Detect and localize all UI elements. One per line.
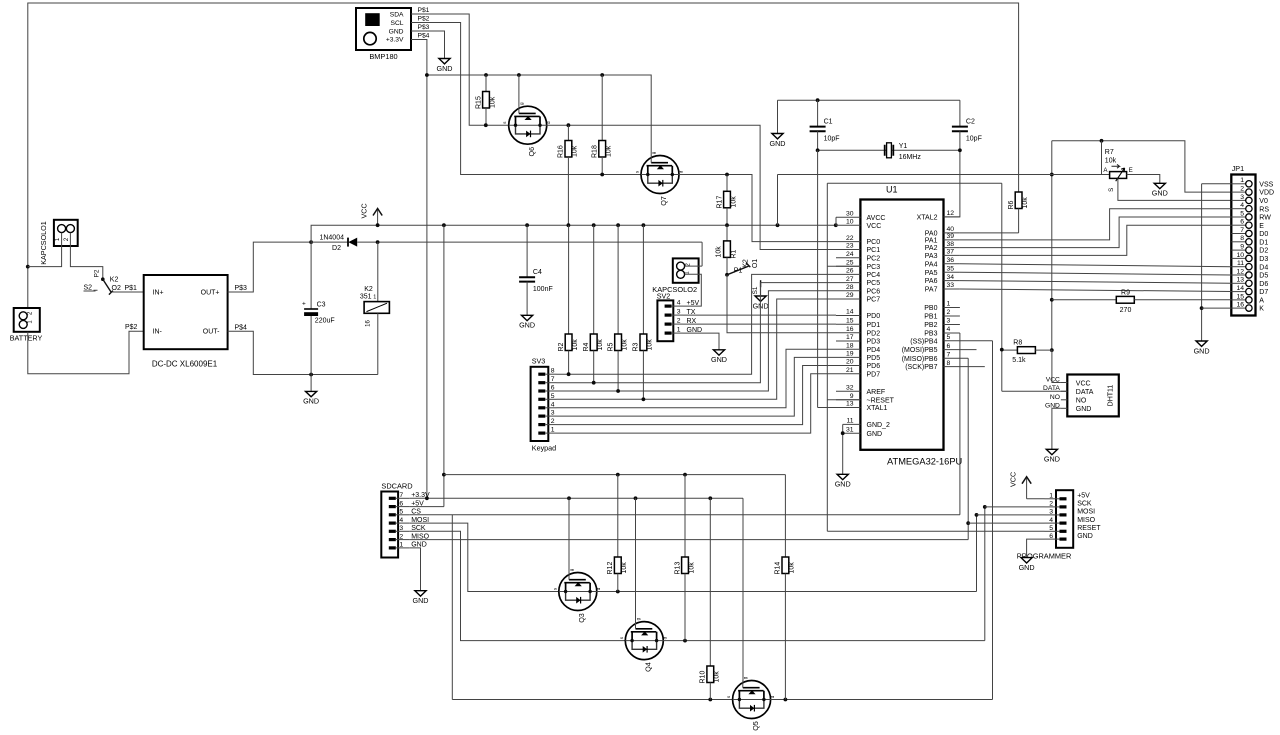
svg-text:10k: 10k (606, 145, 613, 157)
svg-text:12: 12 (947, 210, 955, 217)
svg-text:BATTERY: BATTERY (10, 334, 43, 343)
wire P1 to PD2 (727, 275, 836, 333)
wire OUT+ (P$3) up to D2 anode (228, 242, 312, 292)
svg-text:37: 37 (947, 249, 955, 256)
svg-text:13: 13 (1236, 277, 1244, 284)
svg-text:14: 14 (846, 309, 854, 316)
junction MISO pin4 (966, 521, 970, 525)
svg-text:4: 4 (1240, 202, 1244, 209)
svg-text:R6: R6 (1008, 200, 1015, 209)
svg-text:16MHz: 16MHz (899, 154, 922, 161)
svg-text:D0: D0 (1259, 231, 1268, 238)
svg-text:PC6: PC6 (867, 288, 881, 295)
svg-text:SCK: SCK (1077, 501, 1092, 508)
svg-text:9: 9 (1240, 244, 1244, 251)
svg-text:5: 5 (947, 334, 951, 341)
resistor R3 10k (633, 225, 654, 399)
wire P$4 +3.3V down to SDCARD (411, 40, 427, 499)
ground (BMP180) (439, 59, 450, 64)
svg-text:R3: R3 (633, 342, 640, 351)
svg-text:24: 24 (846, 251, 854, 258)
svg-text:9: 9 (850, 393, 854, 400)
connector KAPCSOLO2 (652, 258, 698, 300)
svg-text:JP1: JP1 (1232, 164, 1244, 173)
svg-text:P$4: P$4 (418, 32, 430, 39)
junction Q3 gate pullup (567, 496, 571, 500)
ground (JP1) (1196, 341, 1207, 346)
wire programmer SCK (985, 506, 1045, 508)
wire programmer RESET (827, 530, 1044, 532)
svg-text:10k: 10k (647, 339, 654, 351)
pin VCC (DHT11) (1061, 382, 1067, 384)
svg-text:R14: R14 (775, 562, 782, 575)
pin 27 PC5 (836, 282, 860, 284)
wire keypad row1 to PD7 (557, 374, 837, 433)
wire VCC bus left end down to D2 anode node (311, 225, 836, 309)
ground (SV2) (713, 350, 724, 355)
pin 1 (SV3) (538, 432, 545, 435)
wire PB7 to SCK riser (960, 366, 985, 368)
pin 39 PA1 (944, 239, 960, 241)
svg-text:18: 18 (846, 342, 854, 349)
svg-text:100nF: 100nF (533, 286, 553, 293)
svg-text:g: g (743, 676, 748, 679)
wire PA2 to RW (960, 217, 1231, 248)
pin 5 (SS)PB4 (944, 340, 960, 342)
svg-text:SV3: SV3 (532, 356, 546, 365)
svg-text:6: 6 (1049, 533, 1053, 540)
svg-text:d: d (678, 170, 683, 173)
svg-text:32: 32 (846, 384, 854, 391)
capacitor C2 10pF (944, 100, 982, 217)
pin 6 +5V (SDCARD) (389, 505, 396, 508)
svg-text:8: 8 (1240, 235, 1244, 242)
junction R15 bottom / Q6 source wire (484, 123, 488, 127)
wire MISO long row (410, 539, 969, 541)
crystal Y1 16MHz (885, 143, 922, 161)
pin 1 +5V (PROGRAMMER) (1060, 497, 1067, 500)
svg-text:1: 1 (947, 301, 951, 308)
pin 28 PC6 (836, 290, 860, 292)
ground (S1) (755, 296, 766, 301)
svg-text:+5V: +5V (687, 300, 700, 307)
svg-text:VDD: VDD (1259, 190, 1274, 197)
wire PB5 to programmer MOSI (960, 349, 977, 351)
junction MOSI pin3 (975, 513, 979, 517)
svg-text:11: 11 (846, 418, 853, 425)
svg-text:(SS)PB4: (SS)PB4 (910, 338, 937, 345)
svg-text:PC1: PC1 (867, 247, 881, 254)
wire Q6 gate drop (518, 75, 520, 106)
svg-text:GND: GND (519, 321, 535, 330)
svg-text:34: 34 (947, 274, 955, 281)
svg-text:P$3: P$3 (235, 285, 248, 292)
svg-text:3: 3 (1240, 194, 1244, 201)
svg-text:S1: S1 (752, 286, 759, 294)
svg-text:6: 6 (551, 385, 555, 392)
wire VCC rail to JP1 VDD (1052, 141, 1232, 192)
svg-text:DATA: DATA (1076, 389, 1094, 396)
svg-text:g: g (519, 102, 524, 105)
svg-text:P$3: P$3 (418, 24, 430, 31)
wire PA5 to D5 (960, 272, 1231, 275)
power flag VCC (programmer) (1009, 472, 1031, 499)
pin 13 XTAL1 (836, 407, 860, 409)
pin 11 GND_2 (843, 423, 861, 425)
svg-text:PD7: PD7 (867, 371, 881, 378)
wire PA6 to D6 (960, 281, 1231, 284)
svg-text:21: 21 (846, 367, 854, 374)
svg-text:DHT11: DHT11 (1108, 385, 1115, 407)
svg-text:PA3: PA3 (925, 253, 938, 260)
junction R18 bottom / Q7 source wire (600, 173, 604, 177)
svg-text:PD2: PD2 (867, 330, 881, 337)
wire KAPCSOLO1-1 to battery+ (28, 233, 62, 267)
svg-text:R12: R12 (607, 562, 614, 575)
svg-text:3: 3 (551, 410, 555, 417)
wire +5V to bus riser (410, 225, 444, 506)
svg-text:6: 6 (399, 500, 403, 507)
pin 4 MISO (PROGRAMMER) (1060, 522, 1067, 525)
pin 5 RW (JP1) (1231, 216, 1246, 218)
svg-text:GND_2: GND_2 (867, 422, 890, 429)
svg-text:2: 2 (677, 317, 681, 324)
svg-text:4: 4 (1049, 517, 1053, 524)
wire keypad row2 to PD6 (557, 366, 837, 425)
svg-text:GND: GND (1044, 455, 1060, 464)
svg-text:16: 16 (846, 326, 854, 333)
svg-text:GND: GND (867, 431, 883, 438)
pin 4 MOSI (SDCARD) (389, 522, 396, 525)
svg-text:RW: RW (1259, 215, 1271, 222)
wire PA4 to D4 (960, 264, 1231, 267)
resistor R1 10k (715, 225, 737, 275)
module DHT11 (1067, 375, 1119, 417)
pin 7 (SV3) (538, 381, 545, 384)
svg-text:22: 22 (846, 235, 854, 242)
pin 34 PA6 (944, 280, 960, 282)
wire programmer MISO (968, 522, 1044, 524)
svg-text:RS: RS (1259, 206, 1269, 213)
svg-text:GND: GND (303, 397, 319, 406)
pin 26 PC4 (836, 273, 860, 275)
svg-text:10k: 10k (621, 339, 628, 351)
svg-text:MOSI: MOSI (1077, 509, 1095, 516)
power flag VCC (360, 203, 383, 225)
svg-text:4: 4 (399, 517, 403, 524)
pin 3 MOSI (PROGRAMMER) (1060, 513, 1067, 516)
svg-text:GND: GND (389, 28, 404, 35)
svg-text:Q7: Q7 (659, 196, 668, 206)
junction R4 on bus (592, 223, 596, 227)
wire PC3 to riser (827, 265, 860, 267)
svg-text:VSS: VSS (1259, 181, 1273, 188)
svg-text:SV2: SV2 (657, 292, 671, 301)
svg-text:7: 7 (947, 351, 951, 358)
switch K2 (S2/O2) lever (101, 277, 105, 281)
svg-text:SCL: SCL (390, 20, 403, 27)
svg-text:38: 38 (947, 241, 955, 248)
svg-text:270: 270 (1120, 307, 1132, 314)
svg-text:GND: GND (835, 480, 851, 489)
svg-text:GND: GND (711, 355, 727, 364)
pin 18 PD4 (836, 348, 860, 350)
pin DATA (DHT11) (1061, 390, 1067, 392)
svg-text:PC5: PC5 (867, 280, 881, 287)
resistor R15 10k (475, 75, 496, 125)
svg-text:28: 28 (846, 284, 854, 291)
svg-text:GND: GND (1019, 563, 1035, 572)
junction R17/R1 on VCC bus (725, 223, 729, 227)
svg-text:6: 6 (947, 343, 951, 350)
wire Q7 drain to PC0 (679, 175, 836, 242)
svg-text:PD3: PD3 (867, 339, 881, 346)
resistor R5 10k (607, 225, 628, 391)
pin 2 (SV3) (538, 423, 545, 426)
svg-text:10k: 10k (572, 339, 579, 351)
wire keypad row8 to PC4 (557, 274, 837, 374)
pin 21 PD7 (836, 373, 860, 375)
svg-text:DC-DC XL6009E1: DC-DC XL6009E1 (152, 360, 218, 369)
junction R16/R2 on bus (567, 223, 571, 227)
svg-text:10k: 10k (789, 562, 796, 574)
junction R8 left / DATA (1000, 348, 1004, 352)
diode D2 1N4004 (311, 235, 702, 252)
svg-text:d: d (770, 695, 775, 698)
ground (U1) (842, 424, 844, 474)
svg-text:12: 12 (1236, 268, 1244, 275)
junction R4 bottom (592, 381, 596, 385)
svg-text:2: 2 (399, 533, 403, 540)
svg-text:R1: R1 (731, 249, 738, 258)
svg-text:6: 6 (1240, 219, 1244, 226)
svg-text:GND: GND (1076, 406, 1092, 413)
junction VCC/R9 (1050, 298, 1054, 302)
resistor R9 270 (1052, 289, 1232, 314)
junction R3 bottom (642, 397, 646, 401)
connector SDCARD (381, 481, 412, 557)
wire DHT11 GND (1052, 408, 1061, 449)
pin 12 XTAL2 (944, 216, 960, 218)
svg-text:2: 2 (1240, 186, 1244, 193)
wire +5V pullup row (444, 474, 786, 476)
svg-text:d: d (663, 636, 668, 639)
svg-text:R9: R9 (1121, 289, 1130, 296)
svg-text:17: 17 (846, 334, 854, 341)
svg-text:10k: 10k (714, 671, 721, 683)
svg-text:PB1: PB1 (924, 314, 937, 321)
resistor R12 10k (607, 475, 628, 592)
svg-text:20: 20 (846, 359, 854, 366)
junction Q4 gate pullup (634, 496, 638, 500)
pin 16 K (JP1) (1231, 307, 1246, 309)
svg-text:C3: C3 (317, 301, 326, 308)
svg-text:1: 1 (1240, 177, 1244, 184)
svg-text:AVCC: AVCC (867, 215, 886, 222)
svg-text:10k: 10k (572, 145, 579, 157)
pin 11 D4 (JP1) (1231, 266, 1246, 268)
wire KAPCSOLO2-2 to VCC net (685, 242, 703, 266)
junction R5 bottom (616, 389, 620, 393)
wire DHT11 data route (827, 183, 1067, 391)
wire Q6 drain to PC1 (547, 125, 836, 249)
junction VCC riser on bus (776, 223, 780, 227)
switch K2 (P1/O1/S1) lever (727, 266, 749, 275)
junction C4 on bus (525, 223, 529, 227)
svg-text:IN-: IN- (153, 329, 163, 336)
svg-text:PA7: PA7 (925, 287, 938, 294)
contact S1 to ground (760, 280, 762, 287)
wire programmer +5V to VCC (1027, 498, 1045, 500)
pin 12 D5 (JP1) (1231, 274, 1246, 276)
transistor Q7 MOSFET (635, 151, 684, 206)
svg-text:D3: D3 (1259, 256, 1268, 263)
junction R16 top (567, 123, 571, 127)
pin 6 (MOSI)PB5 (944, 349, 960, 351)
svg-text:O1: O1 (752, 259, 759, 268)
svg-text:GND: GND (1194, 346, 1210, 355)
svg-text:C1: C1 (824, 118, 833, 125)
wire Q4 drain row to PB7 (663, 507, 985, 641)
junction switch P1 node (725, 273, 729, 277)
svg-text:E: E (1129, 167, 1133, 174)
svg-text:PC3: PC3 (867, 264, 881, 271)
pin 8 (SCK)PB7 (944, 366, 960, 368)
pin 1 PB0 (944, 307, 960, 309)
junction Y1 rail left (816, 148, 820, 152)
svg-text:10k: 10k (730, 196, 737, 208)
pin 37 PA3 (944, 254, 960, 256)
svg-text:SDA: SDA (390, 12, 404, 19)
svg-text:3: 3 (677, 308, 681, 315)
svg-text:P1: P1 (734, 267, 743, 274)
wire SDCARD GND (410, 548, 421, 591)
pin 4 PB3 (944, 332, 960, 334)
junction R5 on bus (616, 223, 620, 227)
junction R3 on bus (642, 223, 646, 227)
svg-text:PA5: PA5 (925, 270, 938, 277)
junction SCK pin2 (983, 505, 987, 509)
svg-text:PC4: PC4 (867, 272, 881, 279)
svg-text:E: E (1259, 223, 1264, 230)
svg-text:10k: 10k (715, 246, 722, 258)
svg-text:Q6: Q6 (527, 147, 536, 157)
svg-text:+: + (302, 301, 306, 308)
wire AVCC join to VCC (835, 217, 837, 225)
pin 35 PA5 (944, 271, 960, 273)
wire KAPCSOLO2-1 to SV2 +5V (683, 274, 701, 306)
svg-text:5: 5 (1049, 525, 1053, 532)
svg-text:351: 351 (360, 294, 372, 301)
svg-text:35: 35 (947, 265, 955, 272)
pin 33 PA7 (944, 288, 960, 290)
pin 19 PD5 (836, 356, 860, 358)
svg-text:10k: 10k (489, 96, 496, 108)
junction R14 bottom (784, 698, 788, 702)
resistor R18 10k (592, 75, 613, 175)
connector SV2 (657, 300, 683, 341)
wire VSS to gnd rail (1202, 184, 1232, 341)
pin 3 PB2 (944, 324, 960, 326)
junction R18 top (600, 73, 604, 77)
svg-text:15: 15 (846, 318, 854, 325)
resistor R6 10k (1008, 192, 1029, 233)
svg-text:RESET: RESET (1077, 525, 1101, 532)
junction C1 top (816, 98, 820, 102)
svg-text:K: K (1259, 306, 1264, 313)
pin 7 (MISO)PB6 (944, 357, 960, 359)
svg-text:2: 2 (551, 418, 555, 425)
svg-text:16: 16 (1236, 302, 1244, 309)
wire P$1 SDA to Q6 source (411, 14, 509, 125)
svg-text:5.1k: 5.1k (1012, 357, 1026, 364)
svg-text:MISO: MISO (1077, 517, 1095, 524)
wire keypad row3 to PD5 (557, 357, 837, 416)
svg-text:D7: D7 (1259, 289, 1268, 296)
connector KAPCSOLO1 (39, 220, 78, 265)
svg-text:R16: R16 (558, 145, 565, 158)
wire RX to PD1 (683, 323, 836, 325)
svg-text:220uF: 220uF (315, 318, 335, 325)
pin 31 GND (843, 432, 861, 434)
svg-text:Q5: Q5 (751, 721, 760, 731)
svg-text:GND: GND (1077, 533, 1093, 540)
svg-text:10: 10 (846, 218, 854, 225)
connector JP1 (1231, 164, 1255, 316)
pin GND (DHT11) (1061, 407, 1067, 409)
transistor Q5 MOSFET (726, 676, 775, 731)
wire keypad row7 to PC5 (557, 283, 837, 383)
svg-text:R7: R7 (1105, 149, 1114, 156)
transistor Q4 MOSFET (619, 617, 668, 672)
svg-text:PA2: PA2 (925, 245, 938, 252)
wire battery- to DC-DC IN- (28, 331, 144, 374)
svg-text:O2: O2 (112, 285, 121, 292)
junction VCC/175 wire (1050, 173, 1054, 177)
svg-text:GND: GND (413, 596, 429, 605)
svg-text:C4: C4 (533, 269, 542, 276)
junction D2/relay/VCC node (376, 240, 380, 244)
ground (R7) (1154, 183, 1165, 188)
svg-text:SDCARD: SDCARD (381, 481, 412, 490)
pin 15 A (JP1) (1231, 299, 1246, 301)
svg-text:8: 8 (947, 360, 951, 367)
ground (DHT11) (1046, 449, 1057, 454)
pin 3 SCK (SDCARD) (389, 530, 396, 533)
junction +3.3V/P$4 at SD (425, 496, 429, 500)
pin 16 PD2 (836, 332, 860, 334)
svg-text:P$1: P$1 (418, 7, 430, 14)
wire CS from PB3 (410, 333, 960, 700)
connector SV3 (531, 356, 549, 441)
connector PROGRAMMER (1017, 490, 1074, 560)
wire R7 E to ground (1127, 175, 1160, 184)
wire K to gnd rail (1202, 307, 1232, 309)
svg-text:R13: R13 (674, 562, 681, 575)
svg-text:4: 4 (677, 299, 681, 306)
pin 23 PC1 (836, 249, 860, 251)
pin 15 PD1 (836, 323, 860, 325)
capacitor C4 100nF (519, 225, 553, 315)
svg-text:40: 40 (947, 226, 955, 233)
wire programmer MOSI (977, 514, 1045, 516)
pin 10 VCC (836, 224, 860, 226)
svg-text:+3.3V: +3.3V (386, 37, 404, 44)
svg-text:PA4: PA4 (925, 261, 938, 268)
capacitor C1 10pF (810, 100, 840, 150)
svg-text:R10: R10 (700, 671, 707, 684)
junction +5V drop on bus (442, 223, 446, 227)
